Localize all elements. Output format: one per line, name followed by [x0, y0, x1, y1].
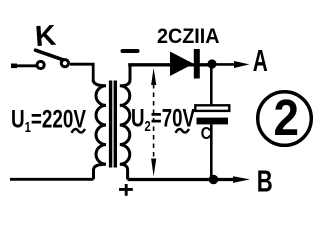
svg-text:C: C — [201, 123, 212, 143]
svg-text:U1=220V: U1=220V — [11, 106, 86, 137]
svg-text:2: 2 — [274, 89, 300, 146]
dimension arrow down — [151, 159, 156, 177]
transformer primary winding — [93, 80, 106, 179]
switch K contact circle left — [37, 61, 44, 68]
tilde under V of U1 — [72, 129, 86, 133]
transformer core bar left — [109, 81, 112, 168]
wire to terminal B with arrow — [218, 178, 237, 181]
wire: switch to transformer primary top — [70, 64, 93, 82]
dimension arrow up — [151, 68, 156, 85]
svg-text:U2=70V: U2=70V — [131, 105, 195, 136]
diode D cathode bar — [194, 49, 200, 79]
wire: bottom-left rail — [10, 178, 94, 181]
transformer secondary winding — [120, 65, 130, 180]
figure number circle — [258, 92, 312, 146]
transformer core bar right — [114, 81, 117, 168]
wire to terminal A with arrow — [217, 63, 239, 66]
voltage dimension line U2 (dashed) — [153, 84, 155, 160]
wire: left input top lead — [12, 64, 36, 67]
svg-text:K: K — [34, 20, 57, 53]
label plus (secondary bottom polarity) — [119, 184, 133, 196]
wire: secondary top rail — [128, 63, 211, 66]
diode D triangle — [170, 52, 194, 77]
tilde under V of U2 — [176, 129, 190, 133]
wire: left input start blob — [11, 64, 17, 69]
capacitor C bottom plate (solid) — [197, 118, 229, 125]
label minus (secondary top polarity) — [123, 49, 138, 53]
capacitor C top plate (hollow) — [195, 105, 229, 111]
svg-text:A: A — [253, 43, 268, 78]
svg-text:2CZIIA: 2CZIIA — [157, 24, 220, 48]
wire: bottom rail — [128, 178, 240, 181]
wire: capacitor bottom lead — [210, 124, 213, 176]
junction dot node B rail — [209, 175, 219, 185]
wire: capacitor top lead — [210, 66, 213, 105]
switch K contact circle right — [61, 60, 68, 67]
switch K arm — [36, 50, 64, 60]
svg-text:B: B — [257, 164, 273, 199]
junction dot node A rail — [207, 59, 216, 68]
